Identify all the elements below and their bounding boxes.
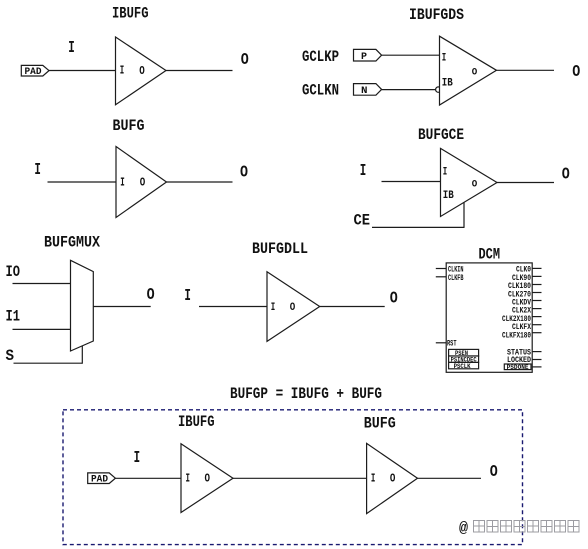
pin stub CLKFX: [532, 324, 541, 326]
svg-text:O: O: [390, 473, 396, 486]
svg-text:O: O: [290, 302, 296, 314]
wire IBUFGDS output: [497, 69, 555, 71]
svg-text:BUFGDLL: BUFGDLL: [252, 240, 308, 258]
pin stub CLK0: [532, 267, 541, 269]
svg-text:IO: IO: [6, 263, 21, 281]
pin stub CLK2X180: [532, 316, 541, 318]
svg-text:O: O: [240, 164, 248, 183]
wire I1 input: [13, 328, 71, 330]
pin stub CLK180: [532, 284, 541, 286]
svg-text:IBUFG: IBUFG: [178, 413, 215, 431]
svg-text:O: O: [572, 63, 580, 82]
dashed enclosure box: [63, 410, 523, 545]
svg-text:IBUFGDS: IBUFGDS: [409, 6, 464, 24]
svg-text:IBUFG: IBUFG: [112, 5, 149, 23]
wire IBUFG output: [166, 70, 233, 72]
svg-text:I: I: [271, 302, 276, 314]
svg-text:BUFGP = IBUFG + BUFG: BUFGP = IBUFG + BUFG: [230, 385, 382, 403]
svg-text:O: O: [562, 166, 570, 185]
svg-text:I: I: [120, 176, 125, 189]
PAD connector tag: [21, 65, 49, 78]
wire BUFGCE input: [382, 181, 441, 183]
svg-text:BUFGCE: BUFGCE: [418, 126, 464, 144]
svg-text:I: I: [371, 473, 376, 486]
pin stub CLK2X: [532, 308, 541, 310]
pin stub CLKFB: [436, 276, 446, 278]
svg-text:IB: IB: [442, 78, 453, 90]
svg-text:@: @: [459, 520, 468, 537]
pin stub RST: [436, 342, 446, 344]
svg-text:I: I: [442, 52, 447, 64]
buffer BUFGDLL triangle: [267, 272, 320, 342]
svg-text:I: I: [34, 161, 41, 180]
svg-text:P: P: [361, 52, 367, 63]
svg-text:PAD: PAD: [91, 475, 108, 486]
svg-text:CLKFB: CLKFB: [448, 274, 464, 283]
mux BUFGMUX body: [71, 260, 94, 351]
wire PAD to IBUFG input: [49, 70, 116, 72]
PAD connector tag: [88, 473, 116, 486]
svg-text:BUFG: BUFG: [113, 117, 145, 135]
wire S horizontal: [14, 362, 83, 364]
svg-text:I: I: [360, 162, 367, 181]
svg-text:PSDONE: PSDONE: [507, 364, 529, 371]
wire BUFGMUX output: [93, 306, 150, 308]
block DCM body: [446, 263, 532, 372]
wire BUFGDLL input: [199, 306, 267, 308]
pin stub CLK90: [532, 275, 541, 277]
pin stub CLK270: [532, 292, 541, 294]
svg-text:O: O: [390, 289, 398, 308]
svg-text:O: O: [472, 66, 478, 78]
pin stub CLKFX180: [532, 332, 541, 334]
buffer IBUFG triangle: [116, 37, 167, 105]
wire N to IB input: [382, 89, 436, 91]
N connector tag: [354, 84, 382, 97]
wire P to I input: [382, 54, 440, 56]
wire PAD to IBUFG: [115, 477, 181, 479]
svg-text:I: I: [443, 166, 448, 178]
wire BUFG input: [48, 181, 117, 183]
pin stub CLKIN: [436, 268, 446, 270]
buffer IBUFGDS triangle: [440, 36, 497, 105]
svg-text:CE: CE: [354, 212, 371, 230]
svg-text:CLKFX180: CLKFX180: [502, 331, 531, 340]
wire I0 input: [13, 283, 71, 285]
svg-text:S: S: [6, 347, 15, 365]
wire CE horizontal: [372, 226, 464, 228]
svg-text:I: I: [120, 65, 125, 78]
wire BUFG output: [167, 181, 233, 183]
buffer BUFGCE triangle: [441, 148, 498, 216]
box PSCLK: [449, 362, 479, 369]
svg-text:DCM: DCM: [479, 246, 501, 264]
svg-text:I: I: [186, 473, 191, 486]
buffer BUFG triangle: [116, 147, 167, 218]
box PSEN: [449, 349, 479, 357]
svg-text:O: O: [139, 65, 145, 78]
wire BUFG output: [418, 477, 482, 479]
svg-text:IB: IB: [443, 190, 454, 202]
svg-text:O: O: [205, 473, 211, 486]
buffer IBUFG triangle: [181, 444, 233, 513]
svg-text:BUFGMUX: BUFGMUX: [44, 234, 100, 252]
svg-text:O: O: [472, 178, 478, 190]
box PSINCDEC: [449, 356, 479, 363]
svg-text:BUFG: BUFG: [364, 414, 396, 432]
svg-text:GCLKN: GCLKN: [302, 82, 339, 100]
svg-text:N: N: [361, 86, 368, 97]
svg-text:RST: RST: [447, 340, 457, 349]
svg-text:O: O: [241, 51, 249, 70]
svg-text:I: I: [68, 39, 75, 58]
svg-text:I: I: [184, 287, 191, 306]
wire BUFGDLL output: [320, 306, 385, 308]
box PSDONE: [504, 364, 531, 371]
svg-text:O: O: [147, 286, 155, 305]
pin stub LOCKED: [532, 359, 541, 361]
P connector tag: [354, 49, 382, 62]
inverter bubble on IB: [436, 87, 441, 92]
svg-text:PSCLK: PSCLK: [454, 363, 471, 370]
svg-text:O: O: [140, 177, 146, 190]
wire IBUFG to BUFG: [233, 477, 367, 479]
watermark: [459, 520, 579, 537]
pin stub CLKDV: [532, 300, 541, 302]
svg-text:I: I: [134, 449, 141, 468]
wire S vertical to mux: [81, 346, 83, 364]
svg-text:O: O: [490, 463, 498, 482]
buffer BUFG triangle: [367, 443, 418, 513]
pin stub PSDONE: [532, 366, 541, 368]
wire BUFGCE output: [497, 182, 554, 184]
svg-text:GCLKP: GCLKP: [302, 48, 339, 66]
pin stub STATUS: [532, 351, 541, 353]
svg-text:I1: I1: [6, 308, 21, 326]
wire CE vertical to triangle: [463, 202, 465, 228]
svg-text:PAD: PAD: [25, 67, 42, 78]
